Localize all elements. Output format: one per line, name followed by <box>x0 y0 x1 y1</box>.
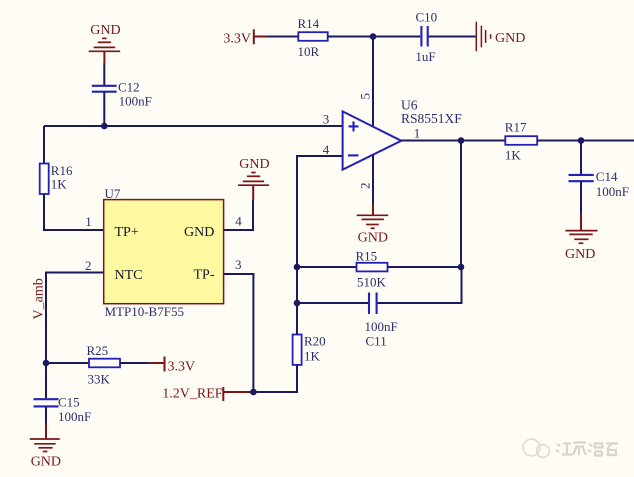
wire junction to R20 bottom <box>253 365 297 392</box>
capacitor C14 <box>569 175 594 181</box>
resistor R14 <box>298 32 327 41</box>
svg-text:100nF: 100nF <box>596 184 629 199</box>
wire R16 to U7 pin1 <box>44 194 104 231</box>
svg-text:C12: C12 <box>118 79 140 94</box>
svg-text:10R: 10R <box>298 44 320 59</box>
svg-text:C10: C10 <box>416 9 438 24</box>
svg-text:GND: GND <box>495 31 525 46</box>
svg-text:3.3V: 3.3V <box>168 360 196 375</box>
svg-text:1: 1 <box>414 126 421 141</box>
svg-text:2: 2 <box>85 258 92 273</box>
wire C11 right segment <box>378 267 462 303</box>
svg-text:C11: C11 <box>366 333 387 348</box>
svg-text:33K: 33K <box>88 372 111 387</box>
svg-text:C14: C14 <box>596 169 618 184</box>
node junction TP-/1.2V_REF <box>250 389 257 396</box>
capacitor C10 <box>421 26 427 47</box>
resistor R17 <box>505 136 537 145</box>
ground GND (top-left power port symbol, inverted earth) <box>89 38 121 63</box>
wire U7 pin4 to GND <box>224 200 253 230</box>
wire 3.3V to R14 <box>268 36 299 38</box>
svg-text:100nF: 100nF <box>365 319 398 334</box>
wire left drop to R16 <box>43 126 45 164</box>
wire pin2 vertical <box>372 155 374 204</box>
svg-text:TP+: TP+ <box>115 225 139 240</box>
wire pin5 vertical <box>372 37 374 127</box>
svg-text:GND: GND <box>358 230 388 245</box>
ground GND above pin4 (inverted earth) <box>238 173 269 201</box>
watermark logo circles <box>523 439 549 457</box>
svg-text:100nF: 100nF <box>58 409 91 424</box>
wire R17 to C14 junction <box>537 140 581 142</box>
svg-text:1K: 1K <box>304 349 321 364</box>
wire U7 pin3 / TP- net <box>224 274 254 392</box>
op-amp plus input mark <box>349 121 359 131</box>
capacitor C15 <box>34 399 59 406</box>
svg-text:3: 3 <box>235 257 242 272</box>
svg-text:100nF: 100nF <box>119 93 152 108</box>
power port 1.2V_REF <box>222 387 224 401</box>
wire feedback vertical <box>460 141 462 268</box>
wire C11 node to R15 node <box>296 267 298 303</box>
svg-text:RS8551XF: RS8551XF <box>401 111 462 126</box>
node junction C14 <box>578 137 585 144</box>
svg-text:GND: GND <box>565 247 595 262</box>
svg-text:V_amb: V_amb <box>32 278 47 319</box>
watermark text 江苏润石 (approximated strokes) <box>556 443 618 456</box>
svg-text:R14: R14 <box>298 16 320 31</box>
op-amp U6 triangle <box>343 111 402 169</box>
wire junction to C10 <box>373 36 420 38</box>
resistor R25 <box>89 359 120 368</box>
wire C12 stem upper <box>103 63 105 85</box>
svg-text:GND: GND <box>239 157 269 172</box>
svg-text:2: 2 <box>358 183 373 190</box>
ground GND sideways (right of C10) <box>476 22 490 51</box>
svg-text:4: 4 <box>323 142 330 157</box>
svg-text:510K: 510K <box>357 275 387 290</box>
node junction output/feedback <box>458 137 465 144</box>
svg-text:1.2V_REF: 1.2V_REF <box>162 386 223 401</box>
ground earth bottom-left <box>30 439 60 452</box>
wire R20 to C11 node <box>296 303 298 335</box>
svg-text:1K: 1K <box>505 148 522 163</box>
svg-text:GND: GND <box>90 23 120 38</box>
node junction R14/C10/pin5 <box>370 33 377 40</box>
svg-text:GND: GND <box>184 225 214 240</box>
wire U7 pin2 / NTC net <box>46 273 104 364</box>
wire op-amp output pin1 <box>401 140 461 142</box>
svg-text:NTC: NTC <box>115 268 143 283</box>
op-amp minus input mark <box>348 154 359 156</box>
resistor R15 <box>357 263 388 272</box>
svg-text:4: 4 <box>235 214 242 229</box>
capacitor C12 <box>92 86 117 92</box>
wire C14 to ground maroon <box>580 213 582 231</box>
svg-text:U7: U7 <box>105 186 121 201</box>
node junction C11 left <box>294 300 301 307</box>
svg-text:1: 1 <box>85 214 92 229</box>
wire C14 to ground upper <box>580 181 582 213</box>
node junction C12/main <box>101 123 108 130</box>
svg-text:1uF: 1uF <box>415 49 435 64</box>
wire junction to R25 <box>46 362 89 364</box>
svg-text:R15: R15 <box>356 248 378 263</box>
capacitor C11 <box>369 293 377 315</box>
svg-text:3.3V: 3.3V <box>223 32 251 47</box>
wire R14 to junction <box>328 36 373 38</box>
svg-text:C15: C15 <box>58 395 80 410</box>
svg-text:5: 5 <box>358 93 373 100</box>
wire to right edge <box>581 140 634 142</box>
wire R15 right segment <box>388 266 462 268</box>
svg-text:GND: GND <box>31 454 61 469</box>
wire C11 left segment <box>297 302 368 304</box>
wire R15 left segment <box>297 266 357 268</box>
wire junction to C15 <box>45 363 47 398</box>
svg-text:3: 3 <box>323 112 330 127</box>
wire C10 to GND <box>429 36 476 38</box>
wire main horizontal to op-amp pin3 <box>44 125 343 127</box>
node junction NTC/R25/C15 <box>43 360 50 367</box>
ground earth below C14 <box>565 231 597 244</box>
power port 3.3V (at R25) <box>164 357 166 372</box>
wire pin2 maroon stem <box>372 204 374 215</box>
resistor R16 <box>40 164 49 195</box>
svg-text:TP-: TP- <box>194 268 215 283</box>
wire C15 to ground <box>45 406 47 423</box>
svg-text:R20: R20 <box>304 334 326 349</box>
IC U7 body <box>104 200 224 304</box>
wire R15 node to op-amp pin4 <box>297 156 343 267</box>
node junction R15 right <box>458 264 465 271</box>
wire C12 to main net <box>103 92 105 126</box>
ground earth below op-amp <box>357 215 389 228</box>
wire junction to C14 <box>580 141 582 175</box>
svg-text:R25: R25 <box>87 343 109 358</box>
wire R25 to 3.3V <box>120 362 149 364</box>
wire output to R17 <box>461 140 505 142</box>
svg-text:MTP10-B7F55: MTP10-B7F55 <box>105 304 184 319</box>
svg-text:R17: R17 <box>505 120 527 135</box>
svg-text:1K: 1K <box>51 177 68 192</box>
node junction R15 left <box>294 264 301 271</box>
resistor R20 <box>293 335 302 365</box>
